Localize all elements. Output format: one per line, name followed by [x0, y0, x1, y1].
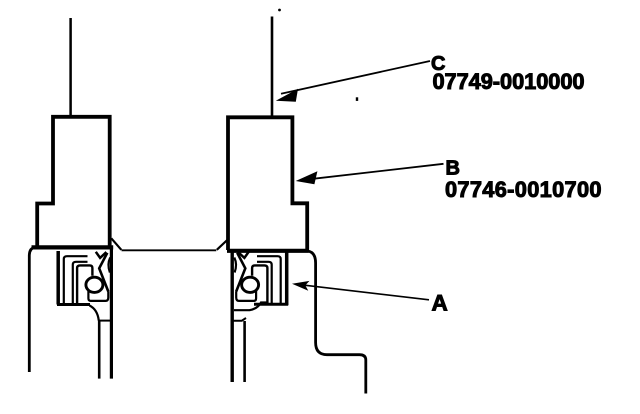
valley floor line	[122, 249, 217, 251]
ledge under right seal	[234, 303, 268, 311]
attachment block left	[37, 117, 110, 250]
bore wall right inner	[243, 321, 246, 382]
bore chamfer right	[217, 239, 229, 250]
seal lip crescent	[108, 258, 110, 273]
bore step left	[98, 320, 111, 322]
oil seal right: outer case	[285, 252, 289, 306]
seal spring pocket	[77, 265, 92, 303]
bore wall right outer	[230, 251, 233, 383]
oil seal left: bottom	[57, 303, 90, 306]
seal lip V notch	[96, 252, 107, 258]
seal lip below spring	[88, 291, 108, 301]
surface curve under left seal	[90, 306, 99, 321]
leader line C	[281, 61, 430, 94]
seal case line 1	[64, 256, 88, 303]
oil seal left: outer case	[56, 251, 60, 305]
leader line A	[297, 284, 429, 300]
garter spring circle	[86, 277, 103, 292]
attachment block right	[228, 117, 307, 250]
oil seal inner details (left), mirrored for right	[64, 252, 110, 304]
seal case line 2	[73, 262, 88, 304]
arrowhead C	[276, 89, 298, 102]
arrowhead B	[296, 171, 318, 184]
speck right of shafts	[356, 97, 358, 101]
housing outer corner + wall right	[308, 251, 366, 394]
svg-text:A: A	[432, 291, 448, 316]
oil seal right: bottom	[254, 303, 288, 306]
driver shaft left	[69, 18, 72, 117]
driver shaft right	[271, 17, 274, 118]
bore step right	[233, 318, 246, 321]
seal lip main diagonal	[99, 253, 108, 292]
arrowhead A	[291, 279, 309, 291]
housing top face right	[227, 249, 309, 253]
svg-text:07746-0010700: 07746-0010700	[445, 177, 602, 202]
housing outer corner + wall left	[29, 248, 34, 372]
svg-text:07749-0010000: 07749-0010000	[433, 69, 585, 94]
leader line B	[301, 164, 444, 180]
bore wall left outer	[110, 249, 113, 379]
bore wall left inner	[98, 321, 101, 379]
speck near right shaft top	[278, 9, 281, 12]
bore chamfer left	[111, 238, 121, 250]
housing top face left	[32, 245, 114, 249]
